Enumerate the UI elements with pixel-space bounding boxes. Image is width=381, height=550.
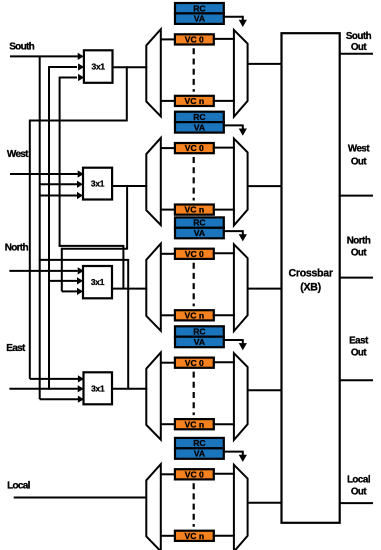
svg-text:RC: RC [193,327,205,337]
wire horizontal tap h4 (East 3x1 output tap up to West 3x1 in3) [39,259,128,390]
buffer North VC 0 [175,249,214,259]
wire horizontal tap h2 (to North 3x1 output) [59,245,124,290]
svg-text:Crossbar: Crossbar [289,268,333,280]
svg-text:South: South [346,31,372,42]
block West: VA unit [175,122,224,133]
wire East 3x1 in1 stub [30,375,84,382]
svg-text:Out: Out [351,347,368,358]
wire Local VCn to mux [213,535,235,537]
mux West output [234,139,248,226]
svg-text:VA: VA [194,228,205,238]
wire North input line [9,267,83,274]
node West Out label [348,144,370,168]
svg-text:RC: RC [193,438,205,448]
wire horizontal tap h1 (from South 3x1 output) [29,66,127,121]
demux South input [146,29,161,116]
svg-text:VC n: VC n [185,419,205,429]
wire East VC0 to mux [213,361,235,363]
svg-text:VC n: VC n [185,205,205,215]
node South Out label [346,31,372,53]
wire North VC ellipsis dashed line [193,263,195,307]
svg-text:Out: Out [351,156,368,167]
block North: VA unit [175,228,224,239]
wire vertical v4b (West 3x1 output tap down to North 3x1 in3) [61,248,63,292]
svg-text:North: North [5,243,29,254]
mux 3x1 North [83,266,112,298]
wire Local input line [14,497,148,499]
svg-text:VA: VA [194,449,205,459]
wire South 3x1 output to demux [113,66,148,68]
mux North output [234,244,248,331]
block East: VA unit [175,337,224,348]
wire South VCn to mux [213,100,235,102]
wire North 3x1 in3 stub [62,288,83,295]
wire West VCn to mux [213,209,235,211]
wire South mux output to crossbar [248,63,283,65]
svg-text:Out: Out [351,42,368,53]
demux North input [146,244,161,331]
wire South VC ellipsis dashed line [193,48,195,92]
wire North demux to VCn [161,314,176,316]
wire West mux output to crossbar [248,185,283,187]
crossbar XB [282,33,340,523]
wire North VCn to mux [213,314,235,316]
svg-text:North: North [347,235,371,246]
svg-text:West: West [7,149,29,160]
wire vertical bus v1 (South 3x1 output tap down to East 3x1 in1) [29,120,31,379]
node Local Out label [347,474,371,497]
svg-text:Out: Out [351,486,368,497]
svg-text:3x1: 3x1 [92,62,106,72]
svg-text:VC 0: VC 0 [185,35,204,45]
wire West input line [10,170,84,177]
buffer North VC n [175,310,214,320]
svg-text:VC 0: VC 0 [185,358,204,368]
wire vertical bus v3 (West line branch) [48,66,50,390]
buffer East VC n [175,419,214,429]
block South: RC unit [175,3,224,13]
svg-text:West: West [348,144,370,155]
mux 3x1 West [83,168,112,200]
wire East VC ellipsis dashed line [193,372,195,416]
wire South demux to VC0 [161,38,176,40]
svg-text:RC: RC [193,3,205,13]
svg-text:VC n: VC n [185,310,205,320]
wire South RC/VA control arrow [224,16,247,27]
wire West demux to VC0 [161,147,176,149]
demux West input [146,138,161,225]
wire East VCn to mux [213,423,235,425]
wire horizontal tap h3 (from West 3x1 output) [61,185,127,249]
svg-text:Out: Out [351,248,368,259]
wire South input line [10,53,84,60]
mux East output [234,353,248,440]
svg-text:3x1: 3x1 [91,277,105,287]
svg-text:RC: RC [193,218,205,228]
svg-text:VA: VA [194,122,205,132]
block South: VA unit [175,13,224,24]
wire North mux output to crossbar [248,288,283,290]
wire North Out line [340,277,373,279]
demux Local input [146,464,161,550]
svg-text:East: East [6,343,26,354]
svg-text:RC: RC [193,112,205,122]
wire West Out line [340,195,373,197]
svg-text:VC 0: VC 0 [185,143,204,153]
svg-text:Local: Local [7,480,31,491]
svg-text:3x1: 3x1 [91,179,105,189]
block North: RC unit [175,217,224,227]
svg-text:VA: VA [194,337,205,347]
wire North VC0 to mux [213,252,235,254]
wire Local VC0 to mux [213,473,235,475]
wire West demux to VCn [161,209,176,211]
node East Out label [349,336,369,359]
wire West VC ellipsis dashed line [193,157,195,201]
block East: RC unit [175,326,224,336]
wire Local demux to VCn [161,535,176,537]
mux Local output [234,465,248,550]
buffer East VC 0 [175,358,214,368]
buffer South VC n [175,96,214,106]
mux 3x1 South [84,50,113,83]
wire vertical bus v2 (South line branch down) [39,56,41,400]
block Local: RC unit [175,438,224,448]
wire South 3x1 in3 stub [60,74,85,81]
wire vertical v4a (North 3x1 output tap up to South 3x1 in3) [59,77,61,247]
svg-text:VC n: VC n [185,96,205,106]
svg-text:Local: Local [347,474,371,485]
wire South 3x1 in2 stub [49,63,84,70]
wire East mux output to crossbar [248,389,283,391]
svg-text:VA: VA [194,14,205,24]
wire South VC0 to mux [213,38,235,40]
wire East input line [9,385,83,392]
mux South output [234,30,248,117]
wire East 3x1 in3 stub [40,396,84,403]
buffer West VC 0 [175,143,214,153]
wire Local Out line [340,502,373,504]
svg-text:VC 0: VC 0 [185,249,204,259]
wire West 3x1 in3 stub [40,192,83,199]
wire Local RC/VA control arrow [224,451,247,462]
svg-text:South: South [9,42,34,53]
buffer Local VC n [175,531,214,541]
svg-text:VC n: VC n [185,531,205,541]
wire East demux to VCn [161,423,176,425]
wire North 3x1 in2 stub [49,277,83,284]
mux 3x1 East [84,372,113,404]
block Local: VA unit [175,448,224,459]
wire West 3x1 output to demux [112,185,147,187]
wire Local demux to VC0 [161,473,176,475]
wire West RC/VA control arrow [224,125,247,136]
svg-text:(XB): (XB) [300,282,321,294]
wire South demux to VCn [161,100,176,102]
wire West VC0 to mux [213,147,235,149]
wire Local VC ellipsis dashed line [193,483,195,527]
wire East Out line [340,379,373,381]
buffer Local VC 0 [175,469,214,479]
wire North 3x1 output to demux [112,288,147,290]
demux East input [146,353,161,440]
svg-text:VC 0: VC 0 [185,469,204,479]
svg-text:3x1: 3x1 [91,383,105,393]
wire North RC/VA control arrow [224,230,247,241]
block West: RC unit [175,112,224,122]
wire East demux to VC0 [161,362,176,364]
wire South Out line [340,53,373,55]
buffer West VC n [175,205,214,215]
buffer South VC 0 [175,34,214,44]
wire North demux to VC0 [161,253,176,255]
wire East RC/VA control arrow [224,339,247,350]
node North Out label [347,235,371,258]
wire West 3x1 in2 stub [40,181,83,188]
wire East 3x1 output to demux [112,388,147,390]
wire Local mux output to crossbar [248,502,283,504]
svg-text:East: East [349,336,369,347]
